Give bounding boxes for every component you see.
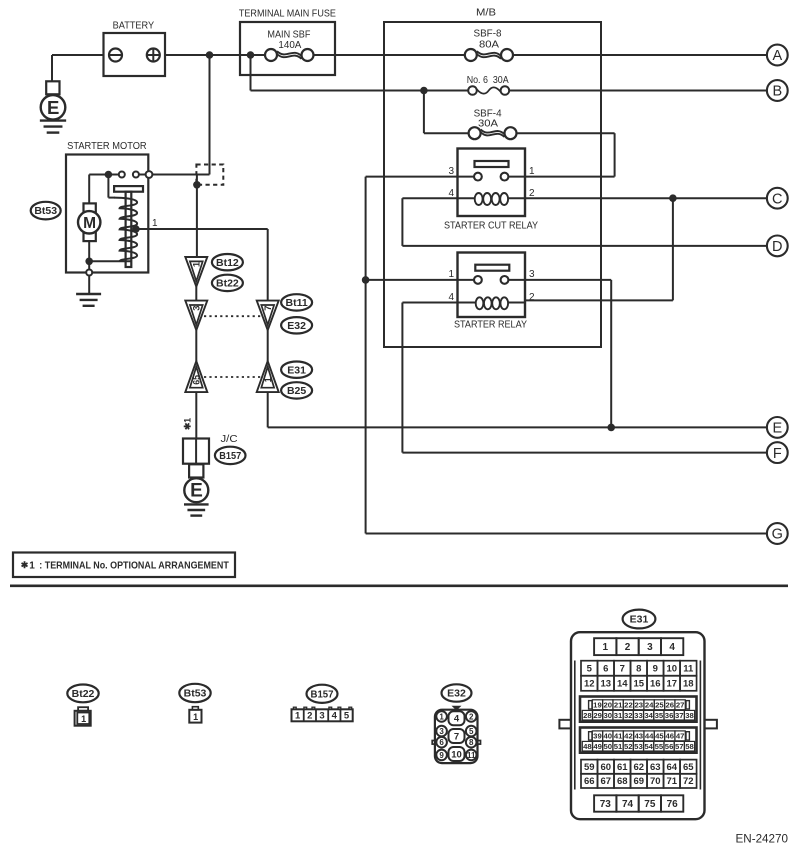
svg-text:6: 6 <box>439 738 444 747</box>
svg-text:E31: E31 <box>287 364 306 376</box>
svg-text:M/B: M/B <box>476 7 496 18</box>
svg-text:1: 1 <box>29 560 35 571</box>
svg-text:53: 53 <box>634 742 643 751</box>
svg-text:10: 10 <box>451 749 462 760</box>
svg-text:Bt12: Bt12 <box>216 257 239 269</box>
svg-text:69: 69 <box>633 776 644 787</box>
svg-text:41: 41 <box>614 731 623 740</box>
svg-text:2: 2 <box>469 712 474 721</box>
svg-text:23: 23 <box>635 700 644 709</box>
svg-text:EN-24270: EN-24270 <box>736 832 789 846</box>
svg-text:17: 17 <box>667 679 678 690</box>
svg-text:16: 16 <box>650 679 661 690</box>
svg-text:E: E <box>47 97 59 118</box>
svg-text:SBF-8: SBF-8 <box>474 28 502 39</box>
svg-text:7: 7 <box>263 305 274 310</box>
svg-text:1: 1 <box>529 166 535 177</box>
svg-text:1: 1 <box>263 377 273 382</box>
svg-text:3: 3 <box>319 711 324 722</box>
svg-text:30A: 30A <box>478 119 498 130</box>
svg-text:28: 28 <box>583 711 592 720</box>
svg-text:71: 71 <box>667 776 678 787</box>
svg-text:5: 5 <box>344 711 350 722</box>
svg-text:73: 73 <box>600 799 612 810</box>
svg-text:D: D <box>772 239 782 255</box>
svg-text:✱1: ✱1 <box>183 418 193 430</box>
svg-text:60: 60 <box>600 762 611 773</box>
svg-text:5: 5 <box>587 663 593 674</box>
svg-text:E32: E32 <box>447 688 466 700</box>
svg-text:B157: B157 <box>311 688 334 700</box>
svg-text:52: 52 <box>624 742 633 751</box>
svg-text:2: 2 <box>307 711 312 722</box>
svg-text:49: 49 <box>593 742 602 751</box>
svg-text:25: 25 <box>655 700 664 709</box>
svg-text:66: 66 <box>584 776 595 787</box>
svg-text:59: 59 <box>584 762 595 773</box>
svg-text:62: 62 <box>633 762 644 773</box>
svg-text:34: 34 <box>644 711 653 720</box>
svg-text:No. 6 30A: No. 6 30A <box>467 75 509 86</box>
svg-text:Bt11: Bt11 <box>286 297 308 309</box>
svg-text:1: 1 <box>439 712 444 721</box>
svg-text:55: 55 <box>655 742 664 751</box>
svg-text:1: 1 <box>192 261 203 267</box>
svg-text:45: 45 <box>655 731 664 740</box>
svg-text:70: 70 <box>650 776 661 787</box>
svg-text:B157: B157 <box>219 450 241 462</box>
svg-text:80A: 80A <box>479 39 499 50</box>
svg-text:4: 4 <box>448 292 454 303</box>
svg-text:36: 36 <box>665 711 674 720</box>
svg-text:1: 1 <box>152 218 158 229</box>
svg-text:13: 13 <box>600 679 611 690</box>
svg-text:47: 47 <box>676 731 685 740</box>
svg-text:56: 56 <box>665 742 674 751</box>
svg-text:2: 2 <box>625 642 631 653</box>
svg-text:76: 76 <box>667 799 679 810</box>
svg-text:11: 11 <box>683 663 694 674</box>
svg-text:40: 40 <box>604 731 613 740</box>
svg-text:B: B <box>772 84 782 100</box>
svg-text:Bt53: Bt53 <box>34 205 57 217</box>
svg-text:51: 51 <box>614 742 623 751</box>
svg-text:65: 65 <box>683 762 694 773</box>
svg-text:BATTERY: BATTERY <box>113 21 155 32</box>
svg-text:4: 4 <box>332 711 338 722</box>
svg-text:: TERMINAL No. OPTIONAL ARRANG: : TERMINAL No. OPTIONAL ARRANGEMENT <box>39 560 229 571</box>
svg-text:10: 10 <box>667 663 678 674</box>
svg-text:46: 46 <box>665 731 674 740</box>
svg-text:57: 57 <box>675 742 684 751</box>
svg-text:1: 1 <box>81 714 86 724</box>
svg-text:✱: ✱ <box>21 560 29 570</box>
svg-text:48: 48 <box>583 742 592 751</box>
svg-text:54: 54 <box>644 742 653 751</box>
svg-text:3: 3 <box>529 269 535 280</box>
svg-text:2: 2 <box>529 292 535 303</box>
svg-text:3: 3 <box>448 166 454 177</box>
svg-text:31: 31 <box>614 711 623 720</box>
svg-text:24: 24 <box>645 700 654 709</box>
svg-text:STARTER CUT RELAY: STARTER CUT RELAY <box>444 220 538 232</box>
svg-text:63: 63 <box>650 762 661 773</box>
svg-text:58: 58 <box>685 742 694 751</box>
svg-text:Bt22: Bt22 <box>72 688 95 700</box>
svg-text:MAIN SBF: MAIN SBF <box>267 29 310 40</box>
svg-text:21: 21 <box>614 700 623 709</box>
svg-text:E32: E32 <box>287 320 306 332</box>
svg-text:1: 1 <box>448 269 454 280</box>
svg-text:E: E <box>190 481 203 502</box>
svg-text:3: 3 <box>439 727 444 736</box>
svg-text:1: 1 <box>295 711 301 722</box>
svg-text:38: 38 <box>685 711 694 720</box>
svg-text:15: 15 <box>633 679 644 690</box>
svg-text:42: 42 <box>624 731 633 740</box>
svg-text:6: 6 <box>603 663 608 674</box>
svg-text:14: 14 <box>617 679 628 690</box>
svg-text:STARTER RELAY: STARTER RELAY <box>454 318 527 330</box>
svg-text:33: 33 <box>634 711 643 720</box>
svg-text:30: 30 <box>604 711 613 720</box>
svg-text:7: 7 <box>454 731 459 742</box>
svg-text:5: 5 <box>469 727 474 736</box>
svg-text:Bt53: Bt53 <box>184 688 207 700</box>
svg-text:F: F <box>773 446 782 462</box>
svg-text:27: 27 <box>676 700 685 709</box>
svg-text:1: 1 <box>602 642 608 653</box>
svg-text:19: 19 <box>593 700 602 709</box>
svg-text:G: G <box>772 527 783 543</box>
svg-text:C: C <box>772 191 782 207</box>
svg-text:18: 18 <box>683 679 694 690</box>
svg-text:74: 74 <box>622 799 634 810</box>
svg-text:68: 68 <box>617 776 628 787</box>
svg-text:M: M <box>83 215 96 232</box>
svg-text:20: 20 <box>604 700 613 709</box>
svg-text:4: 4 <box>669 642 675 653</box>
svg-text:1: 1 <box>193 712 198 722</box>
svg-text:39: 39 <box>593 731 602 740</box>
svg-text:22: 22 <box>624 700 633 709</box>
svg-text:9: 9 <box>653 663 658 674</box>
svg-text:A: A <box>772 48 782 64</box>
svg-text:3: 3 <box>192 305 203 310</box>
svg-text:37: 37 <box>675 711 684 720</box>
svg-text:32: 32 <box>624 711 633 720</box>
svg-text:61: 61 <box>617 762 628 773</box>
svg-text:29: 29 <box>593 711 602 720</box>
svg-text:64: 64 <box>667 762 678 773</box>
svg-text:43: 43 <box>635 731 644 740</box>
svg-text:4: 4 <box>454 714 460 725</box>
svg-text:E31: E31 <box>630 614 649 626</box>
svg-text:35: 35 <box>655 711 664 720</box>
svg-text:TERMINAL MAIN FUSE: TERMINAL MAIN FUSE <box>239 8 336 19</box>
svg-text:72: 72 <box>683 776 694 787</box>
svg-text:J/C: J/C <box>221 434 238 445</box>
svg-text:26: 26 <box>665 700 674 709</box>
svg-text:E: E <box>772 421 782 437</box>
svg-text:7: 7 <box>620 663 625 674</box>
svg-text:9: 9 <box>439 751 444 760</box>
svg-text:STARTER MOTOR: STARTER MOTOR <box>67 140 147 152</box>
svg-text:8: 8 <box>469 738 474 747</box>
svg-text:140A: 140A <box>278 40 301 51</box>
svg-text:12: 12 <box>584 679 595 690</box>
svg-text:B25: B25 <box>287 385 306 397</box>
svg-text:Bt22: Bt22 <box>216 278 239 290</box>
svg-text:11: 11 <box>467 751 476 760</box>
svg-text:8: 8 <box>636 663 641 674</box>
svg-text:65: 65 <box>192 375 202 385</box>
svg-text:75: 75 <box>644 799 656 810</box>
svg-text:67: 67 <box>600 776 611 787</box>
svg-text:50: 50 <box>604 742 613 751</box>
svg-text:44: 44 <box>645 731 654 740</box>
svg-text:3: 3 <box>647 642 653 653</box>
